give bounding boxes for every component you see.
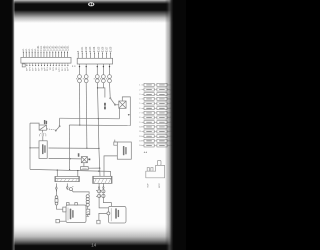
wire stack4 bbox=[102, 83, 104, 88]
svg-text:8: 8 bbox=[139, 117, 140, 119]
load box M2 (crossed) bbox=[119, 101, 126, 108]
wire pinA1 down bbox=[55, 183, 57, 186]
svg-text:14: 14 bbox=[139, 145, 141, 147]
ladder row 2 bbox=[142, 89, 170, 91]
wire stack5 to M2 contact bbox=[109, 83, 112, 98]
svg-text:E106: E106 bbox=[102, 46, 104, 52]
svg-text:E104: E104 bbox=[94, 46, 96, 52]
fork connectors bbox=[40, 133, 42, 136]
ladder row 13 bbox=[142, 140, 170, 142]
svg-text:3: 3 bbox=[139, 94, 140, 96]
CN1 bottom labels bbox=[25, 68, 68, 73]
svg-text:11: 11 bbox=[139, 131, 141, 133]
wire B2 to square bbox=[99, 213, 107, 220]
svg-text:5: 5 bbox=[139, 103, 140, 105]
CN1 top labels bbox=[22, 45, 69, 51]
node stub bbox=[128, 114, 130, 116]
svg-text:E101: E101 bbox=[82, 46, 84, 52]
ladder row 3 bbox=[142, 93, 170, 95]
wire pinB down bbox=[98, 183, 100, 186]
svg-text:TOP: TOP bbox=[147, 183, 149, 188]
svg-text:10: 10 bbox=[139, 127, 141, 129]
lamp pair x=109.5 bbox=[109, 64, 111, 75]
wire M2 loop bbox=[122, 97, 130, 126]
lamp pair x=79.5 bbox=[79, 64, 81, 75]
svg-text:6: 6 bbox=[139, 108, 140, 110]
CN1 bottom pin stems bbox=[27, 63, 68, 65]
publisher logo bbox=[88, 2, 94, 6]
wire rail1 bbox=[60, 117, 120, 120]
wire busB stack2 to rail3 bbox=[85, 83, 88, 149]
wire rail4 bbox=[30, 169, 111, 176]
lamp F2 bbox=[81, 157, 87, 163]
hatched block bbox=[86, 209, 90, 215]
connector profile icon bbox=[146, 160, 165, 177]
wire chainB to B2 bbox=[99, 198, 108, 208]
actuator dashes bbox=[47, 129, 55, 130]
ladder row 8 bbox=[142, 117, 170, 119]
connector CON-A bbox=[55, 177, 80, 182]
CON-A pins up bbox=[57, 170, 78, 176]
lamp pair x=103.4 bbox=[102, 64, 104, 75]
fuse pill F bbox=[55, 196, 58, 199]
ladder row 4 bbox=[142, 98, 170, 100]
svg-text:E103: E103 bbox=[90, 46, 92, 52]
ladder row 12 bbox=[142, 135, 170, 137]
right scan band bbox=[165, 0, 186, 250]
RD1 loop wire bbox=[30, 123, 39, 125]
CN2 top labels bbox=[78, 46, 112, 52]
svg-text:E102: E102 bbox=[86, 46, 88, 52]
battery B2 bbox=[108, 206, 126, 223]
ladder row 10 bbox=[142, 126, 170, 128]
contact bbox=[110, 98, 111, 99]
motor box bbox=[42, 136, 44, 141]
wire pinC down bbox=[102, 183, 104, 186]
wire left drop bbox=[29, 123, 31, 169]
CN2 top pins bbox=[78, 53, 110, 58]
left scan band bbox=[0, 0, 15, 250]
wire branch to M2 bbox=[98, 88, 105, 98]
label RD1 bbox=[44, 120, 47, 124]
wire breaker to R chain bbox=[72, 190, 89, 194]
wire to B1 bbox=[57, 205, 63, 209]
clamp at B1 bbox=[59, 220, 66, 222]
RD1 to forks bbox=[42, 130, 44, 132]
page background bbox=[0, 0, 186, 250]
terminal circles bbox=[102, 190, 105, 193]
connector CN1 bbox=[21, 57, 71, 63]
wire pinA2 down bbox=[66, 183, 68, 185]
arrow terminal bbox=[56, 186, 58, 190]
svg-text:2: 2 bbox=[139, 89, 140, 91]
ladder row 1 bbox=[142, 84, 170, 86]
svg-text:13: 13 bbox=[139, 141, 141, 143]
bottom scan band bbox=[0, 222, 186, 250]
breaker circle bbox=[69, 188, 72, 191]
svg-text:BOT: BOT bbox=[159, 183, 161, 188]
label M2 bbox=[104, 103, 106, 110]
lamp pair x=86.2 bbox=[85, 64, 87, 75]
svg-text:E105: E105 bbox=[98, 46, 100, 52]
connector CN2 bbox=[77, 58, 112, 64]
fusebox SC bbox=[117, 142, 131, 159]
wire busC stack3 long bus bbox=[97, 83, 100, 177]
fuse box bbox=[83, 163, 85, 167]
wire chainC to B2 bbox=[103, 198, 111, 207]
relay RD1 bbox=[39, 125, 46, 130]
wire SC to CON-B bbox=[104, 156, 117, 176]
CN1 keying square bbox=[22, 64, 25, 67]
pill pair bbox=[86, 195, 89, 198]
connector CON-B bbox=[93, 176, 112, 183]
ladder row 14 bbox=[142, 145, 170, 147]
arrow terminal bbox=[67, 186, 69, 190]
wire mid rail bbox=[49, 157, 82, 160]
wire box to rail1 bbox=[118, 108, 120, 119]
svg-text:E108: E108 bbox=[110, 46, 112, 52]
svg-text:1: 1 bbox=[139, 85, 140, 87]
svg-text:14: 14 bbox=[91, 243, 96, 248]
terminal circle bbox=[107, 212, 110, 215]
ladder row 11 bbox=[142, 131, 170, 133]
wire rail2 bbox=[69, 124, 130, 127]
ladder row 6 bbox=[142, 107, 170, 109]
svg-text:9: 9 bbox=[139, 122, 140, 124]
ladder row 5 bbox=[142, 103, 170, 105]
svg-text:C201: C201 bbox=[66, 45, 69, 51]
terminal circles bbox=[98, 190, 101, 193]
wire busA stack1 to rail2 bbox=[79, 83, 81, 125]
ladder row 9 bbox=[142, 121, 170, 123]
label F2 bbox=[78, 153, 80, 157]
svg-text:E107: E107 bbox=[106, 46, 108, 52]
top scan band bbox=[0, 0, 186, 23]
lamp pair x=97.3 bbox=[96, 64, 98, 75]
svg-text:12: 12 bbox=[139, 136, 141, 138]
wire fuse to busC bbox=[88, 167, 100, 169]
battery B1 bbox=[66, 205, 86, 223]
ladder row 7 bbox=[142, 112, 170, 114]
relay contact bbox=[55, 130, 56, 131]
svg-text:4: 4 bbox=[139, 99, 140, 101]
svg-text:7: 7 bbox=[139, 113, 140, 115]
wire rail3 bbox=[30, 147, 99, 150]
stray pin dots left of CN2 bbox=[72, 65, 75, 68]
wire rail2 left drop bbox=[68, 125, 70, 170]
CN1 top pins bbox=[23, 52, 67, 57]
